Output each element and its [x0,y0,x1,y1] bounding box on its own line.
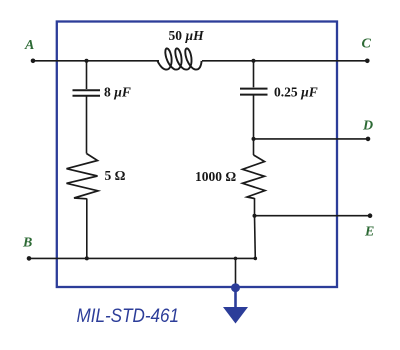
junction node E [253,214,257,218]
ground stem [234,288,237,309]
svg-text:E: E [364,225,374,240]
wire node E to bottom [254,216,257,259]
junction node bottom-left [85,256,89,260]
terminal dot E [368,213,373,218]
ground arrow [223,307,248,324]
wire inductor to C [202,60,367,62]
junction node top-right [252,59,256,63]
capacitor C1 8 uF [73,90,101,96]
svg-text:50 µH: 50 µH [169,28,205,43]
junction node bottom-right [254,257,258,261]
wire D row [254,138,369,140]
svg-text:8 µF: 8 µF [104,85,131,100]
wire cap to node D [253,96,255,139]
svg-text:0.25 µF: 0.25 µF [274,84,318,99]
wire top-left A to inductor [33,60,159,62]
resistor R2 1000 ohm [243,155,266,199]
wire bottom B row [29,257,255,259]
wire ground tie [235,258,237,287]
svg-text:D: D [362,119,373,134]
svg-text:MIL-STD-461: MIL-STD-461 [77,305,180,326]
svg-text:A: A [24,38,34,53]
terminal dot D [366,137,371,142]
wire left branch upper [86,61,88,89]
svg-text:B: B [22,236,32,251]
wire right branch upper [253,61,255,88]
resistor R1 5 ohm [67,154,99,199]
enclosure box [57,22,337,288]
wire resistor left to bottom [86,199,88,259]
junction node D [252,137,256,141]
wire node D to resistor right [253,139,255,155]
terminal dot C [365,59,370,64]
terminal dot A [31,59,36,64]
junction node top-left [85,59,89,63]
junction node ground tie [234,257,238,261]
terminal dot B [27,256,32,261]
wire resistor right to node E [254,198,256,216]
svg-text:C: C [362,37,372,52]
inductor L1 50 uH [158,48,202,69]
wire E row [255,215,371,217]
capacitor C2 0.25 uF [240,89,268,95]
svg-text:5 Ω: 5 Ω [105,168,126,183]
svg-text:1000 Ω: 1000 Ω [195,169,236,184]
ground junction blue dot [231,283,240,292]
wire cap to resistor left [86,97,88,154]
